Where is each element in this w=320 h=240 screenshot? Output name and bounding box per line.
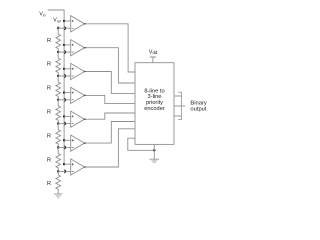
svg-text:encoder: encoder (144, 106, 165, 112)
wire U6 output to encoder pin6 (85, 122, 136, 144)
svg-text:Vin: Vin (39, 12, 45, 18)
label R7 (47, 181, 51, 187)
wire crossover hop 5 (64, 122, 65, 125)
op-amp U6 (71, 135, 85, 151)
node tap 3 (57, 75, 59, 77)
node junction U6 plus on bus (63, 139, 65, 141)
resistor R3 (56, 76, 61, 100)
ground encoder (150, 159, 159, 162)
label R1 (47, 38, 51, 44)
wire ladder top stub (57, 26, 59, 28)
label Vref (53, 18, 60, 24)
node tap 2 (57, 51, 59, 53)
wire U4 output to encoder pin4 (85, 95, 136, 103)
wire bus to U1 plus input (64, 20, 71, 22)
op-amp U1 (71, 16, 85, 32)
wire bus to U4 plus input (64, 92, 71, 94)
resistor R7 (56, 171, 61, 194)
op-amp U7 (71, 159, 85, 175)
wire encoder ground stem (153, 144, 155, 159)
wire crossover hop 6 (64, 146, 65, 149)
power Vdd symbol (150, 57, 156, 63)
label Binary output (190, 101, 207, 113)
wire bus to U5 plus input (64, 115, 71, 117)
wire U1 output to encoder pin1 (85, 24, 136, 72)
label Vin (39, 12, 45, 18)
label R6 (47, 157, 51, 163)
node tap 1 (57, 27, 59, 29)
op-amp U4 (71, 87, 85, 103)
node junction U5 plus on bus (63, 115, 65, 117)
svg-text:R: R (47, 181, 51, 187)
wire crossover hop 7 (64, 170, 65, 173)
resistor R5 (56, 124, 61, 148)
wire Vin bus (48, 10, 64, 164)
svg-text:R: R (47, 157, 51, 163)
label R3 (47, 86, 51, 92)
wire tap6 to U6 minus input (58, 147, 70, 149)
node junction U3 plus on bus (63, 68, 65, 70)
node tap 5 (57, 122, 59, 124)
wire crossover hop 2 (64, 51, 65, 54)
resistor R1 (56, 28, 61, 52)
svg-text:R: R (47, 86, 51, 92)
op-amp U3 (71, 63, 85, 79)
wire U3 output to encoder pin3 (85, 72, 136, 94)
wire tap3 to U3 minus input (58, 75, 70, 77)
op-amp U2 (71, 40, 85, 56)
svg-text:R: R (47, 110, 51, 116)
node tap 7 (57, 170, 59, 172)
wire U5 output to encoder pin5 (85, 113, 136, 119)
node tap 6 (57, 146, 59, 148)
label encoder text (144, 88, 165, 112)
resistor R2 (56, 52, 61, 76)
label R2 (47, 62, 51, 68)
label R5 (47, 133, 51, 139)
wire U7 output to encoder pin7 (85, 129, 136, 167)
label R4 (47, 110, 51, 116)
wire tap5 to U5 minus input (58, 123, 70, 125)
resistor R4 (56, 100, 61, 124)
wire bus to U7 plus input (64, 163, 71, 165)
svg-text:R: R (47, 133, 51, 139)
wire tap1 to U1 minus input (58, 27, 70, 29)
wire crossover hop 1 (64, 27, 65, 30)
wire bus to U6 plus input (64, 139, 71, 141)
svg-text:R: R (47, 38, 51, 44)
node tap 4 (57, 99, 59, 101)
node junction U1 plus on bus (63, 20, 65, 22)
wire bus to U3 plus input (64, 68, 71, 70)
wire tap2 to U2 minus input (58, 51, 70, 53)
wire tap4 to U4 minus input (58, 99, 70, 101)
svg-text:output: output (190, 107, 207, 113)
wire tap7 to U7 minus input (58, 170, 70, 172)
svg-text:R: R (47, 62, 51, 68)
node junction U4 plus on bus (63, 91, 65, 93)
encoder U8 box (135, 63, 174, 145)
node junction ground stem (153, 149, 155, 151)
wire bus to U2 plus input (64, 44, 71, 46)
wire output bit lines (174, 96, 181, 116)
svg-text:Vdd: Vdd (149, 50, 158, 56)
op-amp U5 (71, 111, 85, 127)
resistor R6 (56, 148, 61, 172)
wire crossover hop 3 (64, 75, 65, 78)
wire crossover hop 4 (64, 98, 65, 101)
svg-text:Vref: Vref (53, 18, 60, 24)
node junction U7 plus on bus (63, 163, 65, 165)
wire U2 output to encoder pin2 (85, 48, 136, 83)
label Vdd (149, 50, 158, 56)
ground ladder bottom (54, 194, 62, 198)
wire encoder pin8 to ground (128, 138, 155, 150)
bracket binary output (178, 92, 185, 119)
node junction U2 plus on bus (63, 44, 65, 46)
